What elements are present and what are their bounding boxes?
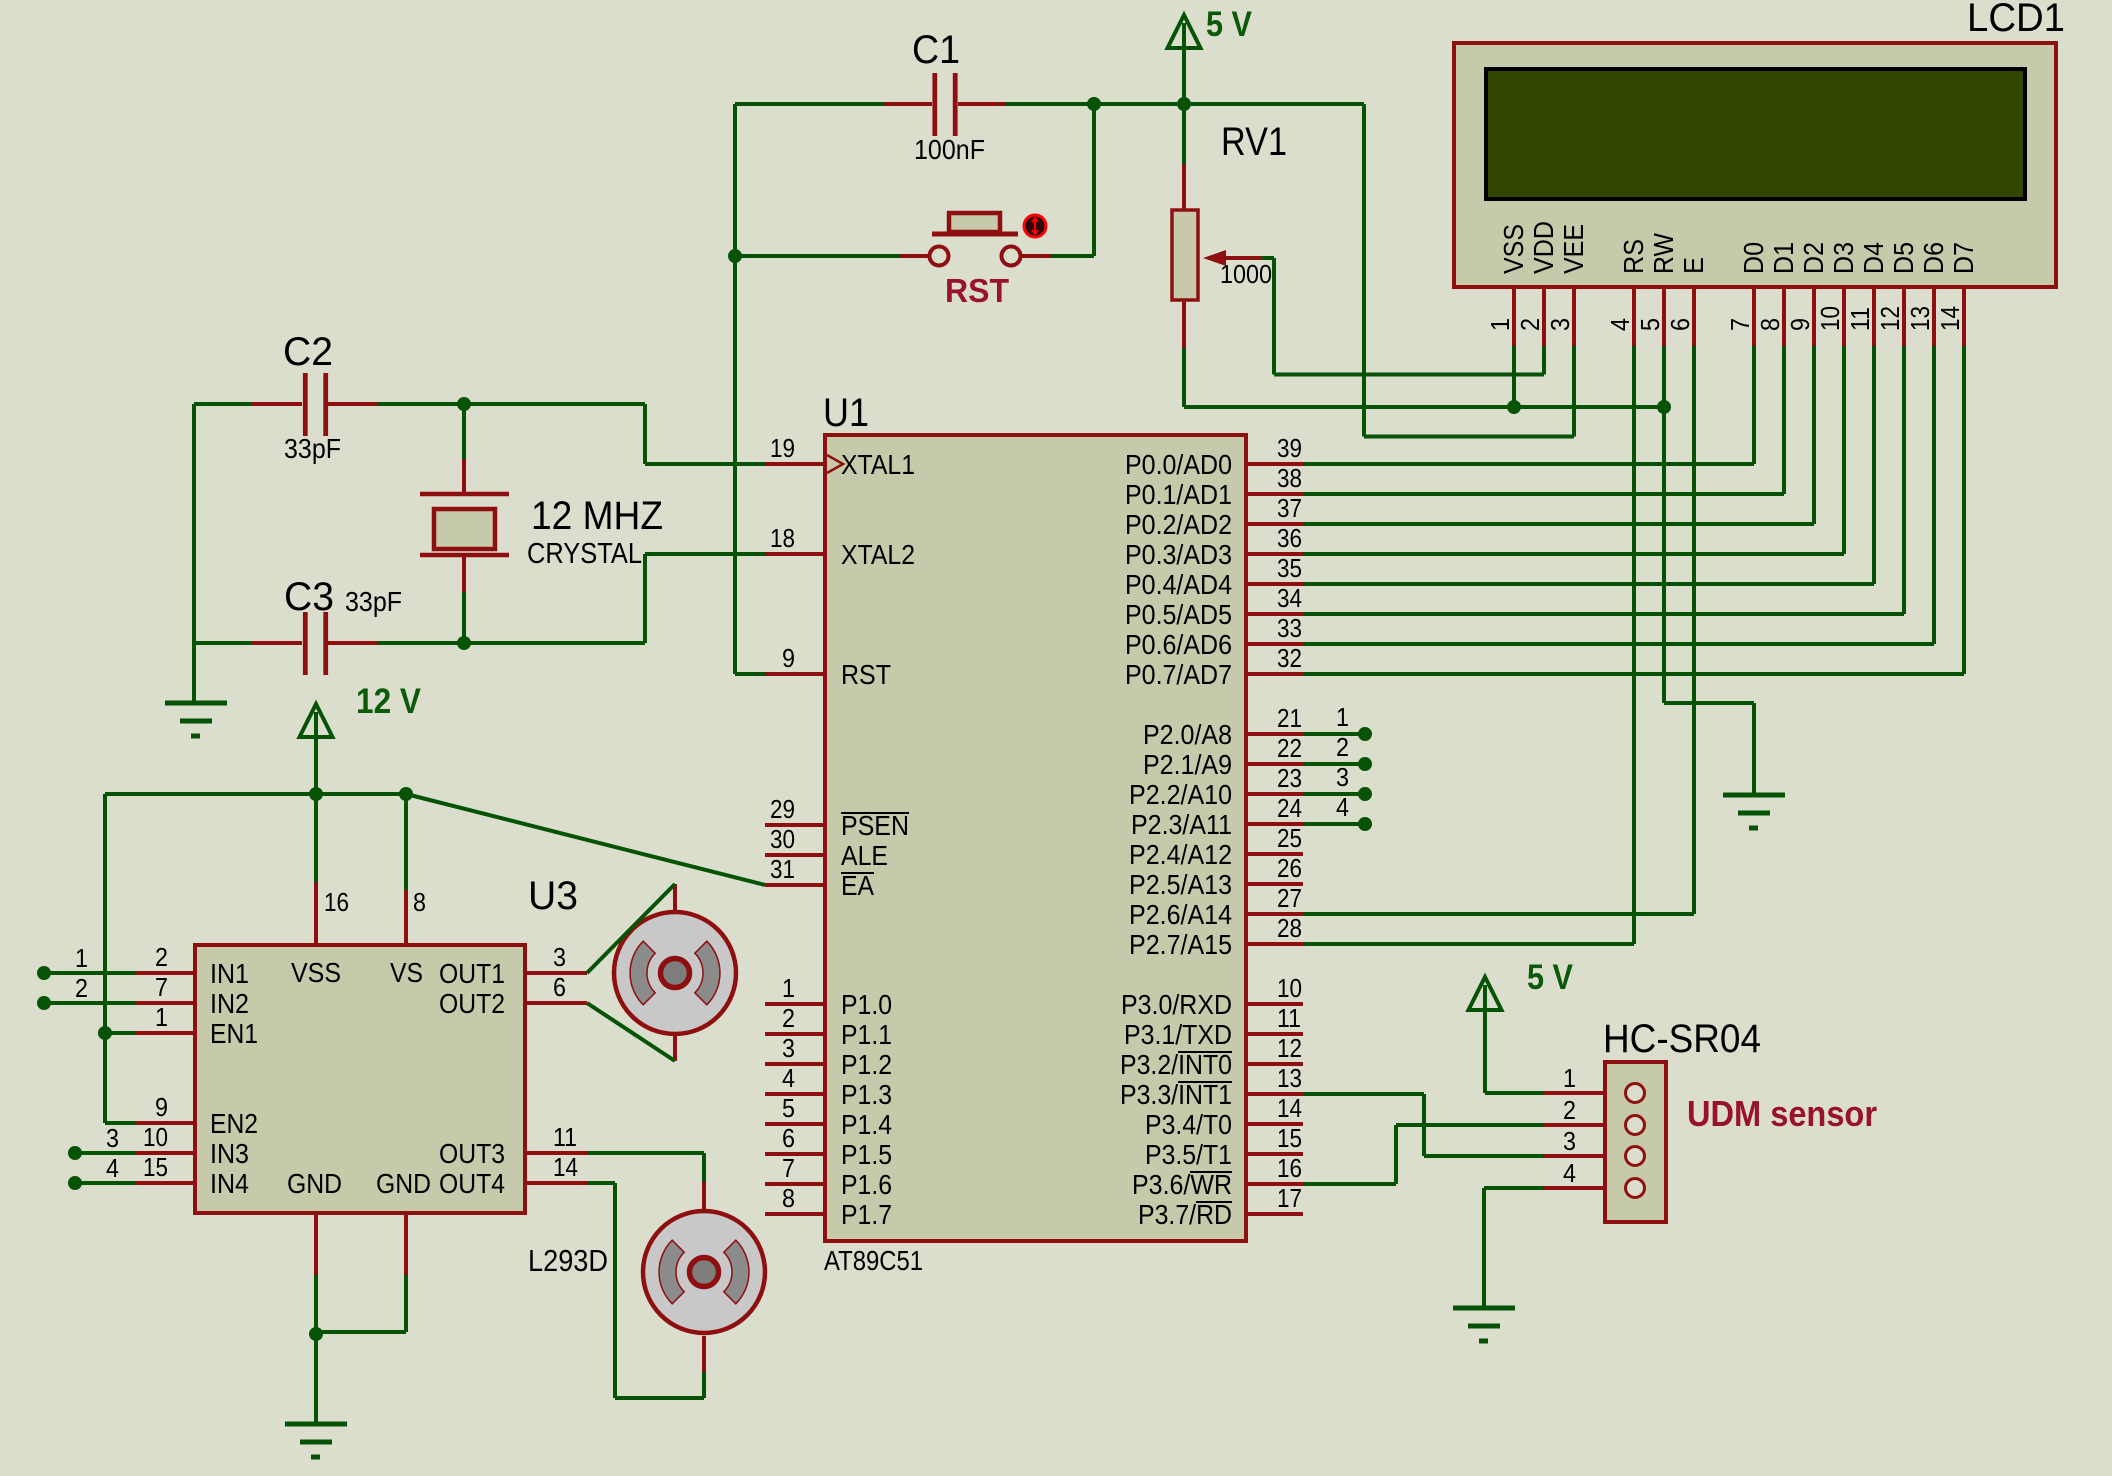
svg-text:D7: D7 [1948, 242, 1979, 274]
svg-text:PSEN: PSEN [841, 810, 909, 841]
svg-text:21: 21 [1277, 703, 1302, 733]
svg-text:34: 34 [1277, 583, 1302, 613]
svg-text:P0.1/AD1: P0.1/AD1 [1125, 479, 1232, 510]
svg-text:6: 6 [1665, 318, 1695, 331]
svg-text:35: 35 [1277, 553, 1302, 583]
svg-text:2: 2 [782, 1003, 795, 1033]
svg-text:OUT1: OUT1 [439, 958, 505, 989]
svg-text:13: 13 [1905, 306, 1935, 331]
svg-text:3: 3 [1563, 1126, 1576, 1156]
svg-text:33pF: 33pF [345, 586, 402, 617]
svg-text:12 V: 12 V [356, 682, 422, 721]
svg-text:D4: D4 [1858, 242, 1889, 274]
svg-text:P2.5/A13: P2.5/A13 [1129, 869, 1232, 900]
svg-text:VDD: VDD [1528, 221, 1559, 274]
svg-text:28: 28 [1277, 913, 1302, 943]
svg-text:4: 4 [1563, 1158, 1576, 1188]
svg-text:3: 3 [553, 942, 566, 972]
svg-text:U1: U1 [823, 391, 869, 435]
svg-text:GND: GND [376, 1168, 431, 1199]
svg-text:3: 3 [106, 1123, 119, 1153]
svg-text:8: 8 [1755, 318, 1785, 331]
svg-text:P3.4/T0: P3.4/T0 [1145, 1109, 1232, 1140]
svg-text:IN2: IN2 [210, 988, 249, 1019]
svg-text:P3.3/INT1: P3.3/INT1 [1120, 1079, 1232, 1110]
svg-text:D5: D5 [1888, 242, 1919, 274]
svg-text:UDM sensor: UDM sensor [1687, 1093, 1877, 1134]
svg-text:14: 14 [553, 1152, 578, 1182]
svg-text:P0.0/AD0: P0.0/AD0 [1125, 449, 1232, 480]
svg-text:D3: D3 [1828, 242, 1859, 274]
svg-text:4: 4 [1336, 792, 1349, 822]
svg-text:P0.6/AD6: P0.6/AD6 [1125, 629, 1232, 660]
svg-text:4: 4 [106, 1153, 119, 1183]
svg-text:16: 16 [324, 887, 349, 917]
svg-text:5: 5 [782, 1093, 795, 1123]
svg-text:P2.3/A11: P2.3/A11 [1131, 809, 1232, 840]
svg-text:P2.0/A8: P2.0/A8 [1143, 719, 1232, 750]
svg-text:VS: VS [390, 957, 423, 988]
svg-text:P3.0/RXD: P3.0/RXD [1121, 989, 1232, 1020]
svg-text:11: 11 [1277, 1003, 1301, 1033]
svg-text:OUT2: OUT2 [439, 988, 505, 1019]
svg-text:P0.2/AD2: P0.2/AD2 [1125, 509, 1232, 540]
svg-text:D1: D1 [1768, 242, 1799, 274]
svg-text:9: 9 [782, 643, 795, 673]
svg-text:11: 11 [1845, 307, 1875, 331]
svg-text:5 V: 5 V [1527, 958, 1574, 997]
svg-text:P0.4/AD4: P0.4/AD4 [1125, 569, 1232, 600]
svg-text:C2: C2 [283, 330, 333, 374]
svg-text:33pF: 33pF [284, 433, 341, 464]
svg-text:29: 29 [770, 794, 795, 824]
svg-text:RST: RST [945, 272, 1009, 309]
svg-text:9: 9 [155, 1092, 168, 1122]
svg-text:14: 14 [1935, 306, 1965, 331]
svg-text:12: 12 [1875, 306, 1905, 331]
svg-text:24: 24 [1277, 793, 1302, 823]
svg-text:P1.3: P1.3 [841, 1079, 892, 1110]
svg-text:P0.5/AD5: P0.5/AD5 [1125, 599, 1232, 630]
svg-text:14: 14 [1277, 1093, 1302, 1123]
svg-text:2: 2 [155, 942, 168, 972]
svg-text:XTAL1: XTAL1 [841, 449, 915, 480]
svg-text:1: 1 [75, 943, 88, 973]
svg-text:IN4: IN4 [210, 1168, 249, 1199]
svg-text:23: 23 [1277, 763, 1302, 793]
svg-text:1: 1 [1485, 318, 1515, 331]
svg-text:10: 10 [1815, 306, 1845, 331]
svg-text:GND: GND [287, 1168, 342, 1199]
svg-text:39: 39 [1277, 433, 1302, 463]
svg-text:P3.6/WR: P3.6/WR [1132, 1169, 1232, 1200]
svg-text:10: 10 [143, 1122, 168, 1152]
svg-text:P1.1: P1.1 [841, 1019, 892, 1050]
svg-text:6: 6 [553, 972, 566, 1002]
svg-text:9: 9 [1785, 318, 1815, 331]
svg-text:XTAL2: XTAL2 [841, 539, 915, 570]
svg-text:2: 2 [75, 973, 88, 1003]
svg-text:HC-SR04: HC-SR04 [1603, 1017, 1761, 1061]
svg-text:1: 1 [1336, 702, 1349, 732]
svg-text:P3.1/TXD: P3.1/TXD [1124, 1019, 1232, 1050]
svg-text:2: 2 [1563, 1095, 1576, 1125]
svg-text:EN1: EN1 [210, 1018, 258, 1049]
svg-text:ALE: ALE [841, 840, 888, 871]
svg-text:12: 12 [1277, 1033, 1302, 1063]
svg-text:36: 36 [1277, 523, 1302, 553]
svg-text:13: 13 [1277, 1063, 1302, 1093]
svg-text:7: 7 [155, 972, 168, 1002]
svg-text:5: 5 [1635, 318, 1665, 331]
svg-text:12 MHZ: 12 MHZ [531, 494, 663, 538]
svg-text:25: 25 [1277, 823, 1302, 853]
svg-text:D0: D0 [1738, 242, 1769, 274]
svg-text:P1.5: P1.5 [841, 1139, 892, 1170]
svg-text:U3: U3 [528, 874, 578, 918]
svg-text:17: 17 [1277, 1183, 1302, 1213]
svg-text:1: 1 [1563, 1063, 1576, 1093]
svg-text:22: 22 [1277, 733, 1302, 763]
svg-text:IN3: IN3 [210, 1138, 249, 1169]
svg-text:4: 4 [1605, 318, 1635, 331]
svg-text:IN1: IN1 [210, 958, 249, 989]
svg-text:100nF: 100nF [914, 134, 985, 165]
svg-text:P2.2/A10: P2.2/A10 [1129, 779, 1232, 810]
svg-text:1: 1 [155, 1002, 168, 1032]
svg-text:P1.0: P1.0 [841, 989, 892, 1020]
svg-text:16: 16 [1277, 1153, 1302, 1183]
svg-text:7: 7 [782, 1153, 795, 1183]
svg-text:2: 2 [1336, 732, 1349, 762]
svg-text:P2.4/A12: P2.4/A12 [1129, 839, 1232, 870]
svg-text:RST: RST [841, 659, 891, 690]
svg-text:L293D: L293D [528, 1243, 608, 1278]
svg-text:3: 3 [782, 1033, 795, 1063]
svg-text:EN2: EN2 [210, 1108, 258, 1139]
svg-text:4: 4 [782, 1063, 795, 1093]
svg-text:C1: C1 [912, 28, 960, 72]
svg-text:2: 2 [1515, 318, 1545, 331]
svg-text:10: 10 [1277, 973, 1302, 1003]
svg-text:P2.1/A9: P2.1/A9 [1143, 749, 1232, 780]
svg-text:AT89C51: AT89C51 [824, 1245, 923, 1276]
svg-text:P2.6/A14: P2.6/A14 [1129, 899, 1232, 930]
svg-text:P3.2/INT0: P3.2/INT0 [1120, 1049, 1232, 1080]
svg-text:C3: C3 [284, 575, 334, 619]
svg-text:6: 6 [782, 1123, 795, 1153]
svg-text:E: E [1678, 257, 1709, 274]
svg-text:38: 38 [1277, 463, 1302, 493]
svg-text:5 V: 5 V [1206, 5, 1253, 44]
svg-text:OUT4: OUT4 [439, 1168, 505, 1199]
svg-text:P1.4: P1.4 [841, 1109, 892, 1140]
svg-text:P1.7: P1.7 [841, 1199, 892, 1230]
svg-text:D2: D2 [1798, 242, 1829, 274]
svg-text:8: 8 [782, 1183, 795, 1213]
svg-text:VSS: VSS [291, 957, 341, 988]
svg-text:15: 15 [143, 1152, 168, 1182]
svg-text:27: 27 [1277, 883, 1302, 913]
svg-text:LCD1: LCD1 [1967, 0, 2065, 40]
svg-text:P0.7/AD7: P0.7/AD7 [1125, 659, 1232, 690]
svg-text:VEE: VEE [1558, 224, 1589, 274]
svg-text:D6: D6 [1918, 242, 1949, 274]
svg-text:3: 3 [1545, 318, 1575, 331]
svg-text:P3.7/RD: P3.7/RD [1138, 1199, 1232, 1230]
svg-text:18: 18 [770, 523, 795, 553]
svg-text:1: 1 [782, 973, 795, 1003]
svg-text:31: 31 [770, 854, 795, 884]
svg-text:OUT3: OUT3 [439, 1138, 505, 1169]
svg-text:RW: RW [1648, 233, 1679, 274]
svg-text:30: 30 [770, 824, 795, 854]
svg-text:VSS: VSS [1498, 224, 1529, 274]
svg-text:32: 32 [1277, 643, 1302, 673]
svg-text:P0.3/AD3: P0.3/AD3 [1125, 539, 1232, 570]
svg-text:33: 33 [1277, 613, 1302, 643]
svg-text:P1.6: P1.6 [841, 1169, 892, 1200]
svg-text:CRYSTAL: CRYSTAL [527, 538, 642, 570]
svg-text:19: 19 [770, 433, 795, 463]
svg-text:P1.2: P1.2 [841, 1049, 892, 1080]
svg-text:11: 11 [553, 1122, 577, 1152]
svg-text:7: 7 [1725, 318, 1755, 331]
svg-text:RV1: RV1 [1221, 120, 1287, 164]
svg-text:37: 37 [1277, 493, 1302, 523]
svg-text:EA: EA [841, 870, 874, 901]
svg-text:26: 26 [1277, 853, 1302, 883]
svg-text:8: 8 [413, 887, 426, 917]
svg-text:P3.5/T1: P3.5/T1 [1145, 1139, 1232, 1170]
svg-text:15: 15 [1277, 1123, 1302, 1153]
svg-text:P2.7/A15: P2.7/A15 [1129, 929, 1232, 960]
svg-text:3: 3 [1336, 762, 1349, 792]
svg-text:1000: 1000 [1220, 259, 1272, 289]
svg-text:RS: RS [1618, 239, 1649, 274]
